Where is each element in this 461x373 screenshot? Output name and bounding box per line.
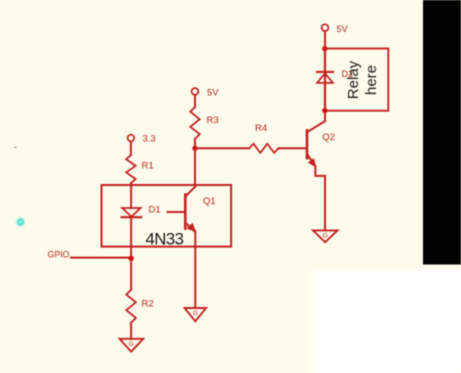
svg-text:R1: R1 (142, 161, 154, 172)
wire node to R4 (195, 147, 249, 149)
svg-text:R3: R3 (207, 115, 219, 126)
resistor R4 (249, 144, 278, 153)
svg-text:Relay: Relay (345, 60, 362, 99)
cyan cursor dot (15, 216, 26, 227)
wire node to R2 (130, 258, 132, 290)
svg-text:here: here (363, 65, 380, 95)
svg-text:5V: 5V (207, 88, 219, 99)
junction dot relay bottom (322, 108, 327, 113)
svg-text:G: G (323, 233, 328, 240)
svg-text:G: G (129, 341, 134, 348)
svg-text:3.3: 3.3 (143, 134, 156, 145)
wire R3 to node (194, 139, 196, 148)
label Relay here (345, 60, 380, 99)
transistor Q1 (168, 187, 196, 232)
wire Q1 emitter down (194, 231, 196, 308)
svg-text:5V: 5V (337, 24, 349, 34)
white page corner (312, 270, 461, 373)
node junction dot middle (192, 146, 197, 151)
wire R1 to D1 (130, 183, 132, 208)
wire D1 to GPIO node (130, 217, 132, 258)
resistor R2 (126, 290, 136, 323)
supply 3.3 (128, 135, 135, 142)
supply 5V middle (192, 88, 199, 95)
svg-text:4N33: 4N33 (146, 230, 184, 249)
wire Q2 collector up (324, 111, 326, 121)
ground under R2 (120, 339, 144, 352)
wire node to Q1 collector (194, 148, 196, 186)
relay box (325, 49, 388, 111)
ground under Q2 (313, 230, 337, 242)
diode D1 (122, 208, 142, 217)
wire 5V to relay (324, 31, 326, 49)
optocoupler box 4N33 (102, 185, 232, 247)
resistor R3 (190, 107, 199, 139)
ground under Q1 (185, 308, 207, 321)
transistor Q2 (307, 121, 325, 167)
wire GPIO (71, 257, 131, 259)
dust speck (14, 146, 16, 148)
wire R4 to Q2 base (278, 147, 307, 149)
svg-text:Q2: Q2 (322, 132, 335, 143)
junction dot GPIO node (128, 256, 133, 261)
svg-text:D1: D1 (149, 205, 161, 216)
wire R2 to ground (130, 322, 132, 338)
wire 3.3 to R1 (130, 141, 132, 155)
svg-text:Q1: Q1 (203, 196, 216, 207)
svg-text:G: G (193, 310, 198, 317)
svg-text:GPIO: GPIO (48, 250, 70, 260)
junction dot relay top (322, 46, 327, 51)
svg-text:R2: R2 (142, 298, 154, 309)
diode D2 flyback (317, 72, 333, 83)
wire relay left / diode branch (324, 49, 326, 111)
black sidebar (423, 0, 461, 265)
wire 5V to R3 (194, 95, 196, 107)
svg-text:R4: R4 (255, 123, 267, 134)
supply 5V relay (322, 24, 329, 31)
resistor R1 (126, 155, 135, 183)
wire Q2 emitter to ground (315, 166, 325, 230)
